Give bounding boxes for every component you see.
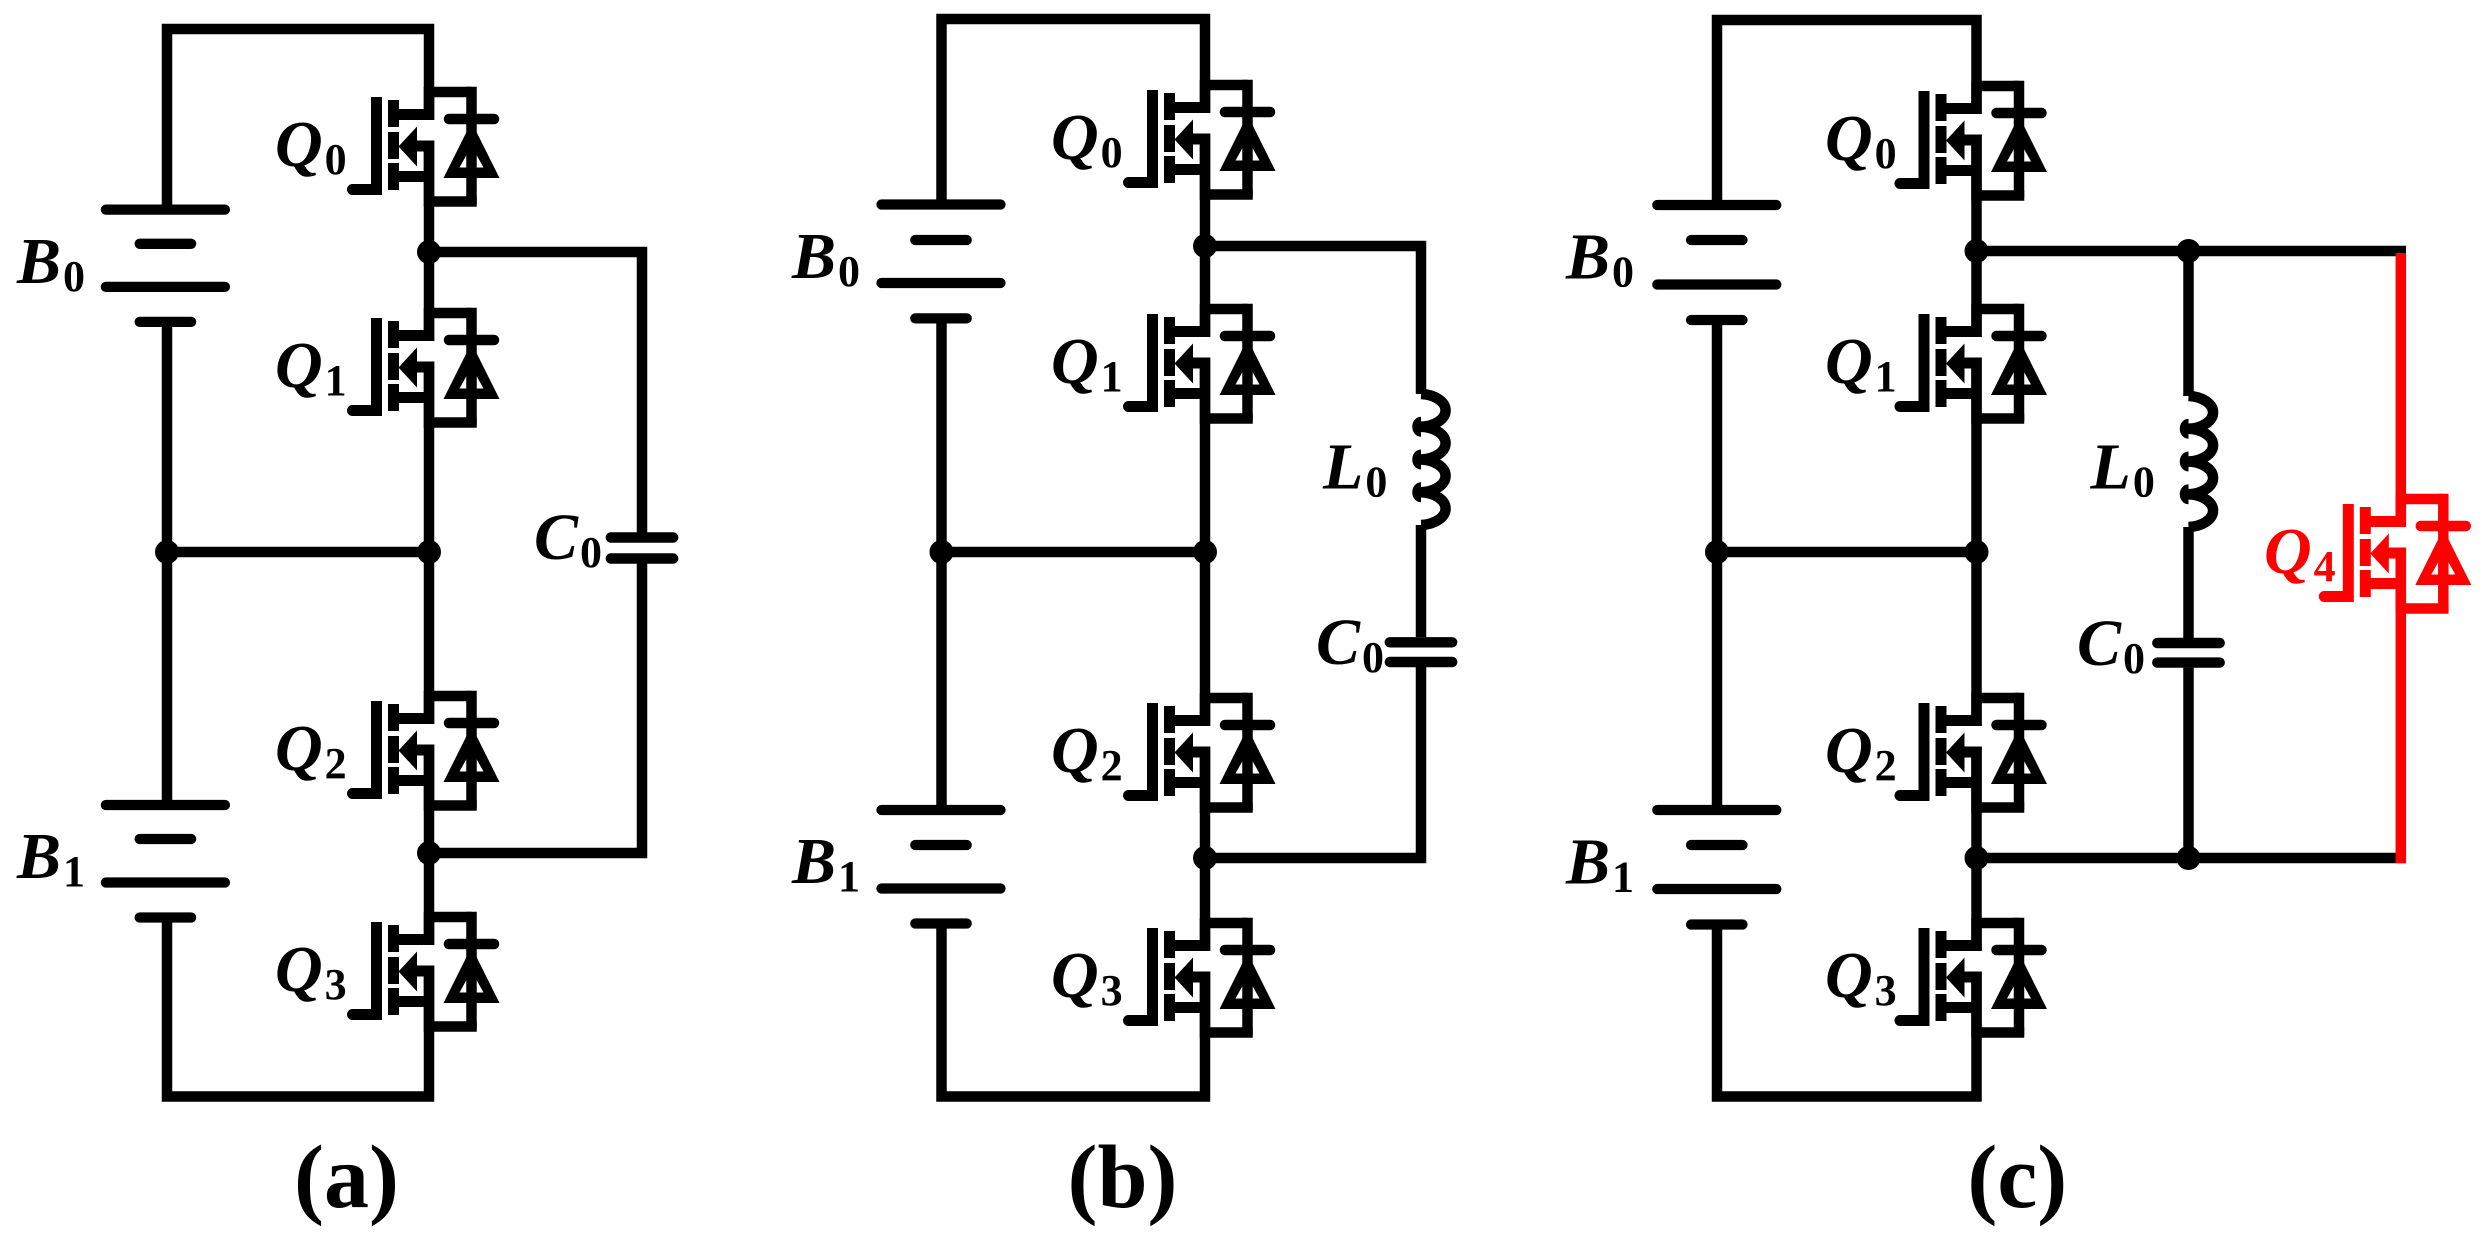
- wire: (c) bus Q1-mid-Q2: [1971, 358, 1982, 727]
- junction: (c) L0 tap top: [2177, 239, 2201, 263]
- wire: (c) B0- down to mid rail: [1712, 320, 1723, 552]
- junction: (c) L0 tap bottom: [2177, 846, 2201, 870]
- inductor L0 (b): [1421, 394, 1446, 525]
- wire: (b) C0 bottom to node B: [1205, 667, 1421, 858]
- wire: (b) mid rail down to B1+: [936, 552, 947, 814]
- junction: (b) mid rail right: [1193, 540, 1217, 564]
- transistor Q0 (b): [1129, 80, 1276, 200]
- wire: (c) tap down to L0: [2183, 251, 2194, 396]
- wire: (c) L0 to C0: [2183, 527, 2194, 638]
- battery B0 (a): [106, 204, 225, 214]
- transistor Q3 (b): [1129, 918, 1276, 1038]
- wire: (b) bus Q0-node-Q1: [1200, 134, 1211, 338]
- transistor Q1 (a): [353, 308, 500, 428]
- transistor Q2 (b): [1129, 693, 1276, 813]
- junction: (c) mid rail left: [1705, 540, 1729, 564]
- junction: (b) mid rail left: [930, 540, 954, 564]
- wire: (a) C0 bottom to node B: [429, 563, 642, 853]
- wire: (a) bottom run B1- to Q3 source: [167, 918, 429, 1097]
- svg-text:(a): (a): [294, 1128, 399, 1227]
- node A: (c) upper output node: [1965, 239, 1989, 263]
- wire: (b) bus Q2-node-Q3: [1200, 747, 1211, 952]
- wire: (a) top-left run B0+ to Q0 drain: [167, 29, 429, 206]
- transistor Q3 (c): [1900, 918, 2047, 1038]
- capacitor C0 (c): [2157, 638, 2219, 648]
- transistor Q1 (b): [1129, 304, 1276, 424]
- wire: (b) top-left run B0+ to Q0 drain: [942, 19, 1206, 201]
- wire: (b) L0 to C0: [1416, 525, 1427, 637]
- wire: (a) node A to C0 top: [429, 252, 642, 533]
- junction: (c) mid rail right: [1965, 540, 1989, 564]
- wire: (c) mid rail down to B1+: [1712, 552, 1723, 814]
- node A: (a) upper output node: [417, 240, 441, 264]
- wire: (a) bus Q0-node-Q1: [424, 141, 435, 342]
- wire: (c) red Q4 drain riser: [2396, 253, 2407, 527]
- wire: (b) node A to L0: [1205, 246, 1421, 394]
- transistor Q1 (c): [1900, 304, 2047, 424]
- wire: (c) bus Q2-node-Q3: [1971, 747, 1982, 952]
- node A: (b) upper output node: [1193, 234, 1217, 258]
- wire: (c) bottom run B1- to Q3 source: [1717, 925, 1977, 1097]
- battery B0 (c): [1657, 200, 1776, 210]
- junction: (a) mid rail left: [155, 540, 179, 564]
- wire: (a) mid rail down to B1+: [162, 552, 173, 809]
- battery B0 (b): [882, 199, 1001, 209]
- wire: (a) bus Q1-mid-Q2: [424, 362, 435, 725]
- junction: (a) mid rail right: [417, 540, 441, 564]
- wire: (a) bus Q2-node-Q3: [424, 745, 435, 946]
- node B: (a) lower output node: [417, 841, 441, 865]
- wire: (b) bus Q1-mid-Q2: [1200, 358, 1211, 727]
- wire: (c) C0 bottom to node B: [2183, 668, 2194, 858]
- wire: (a) B0- down to mid rail: [162, 322, 173, 552]
- capacitor C0 (a): [611, 532, 673, 542]
- battery B1 (c): [1657, 805, 1776, 815]
- battery B1 (a): [106, 800, 225, 810]
- wire: (c) node A rail to Q4 drain: [1977, 246, 2407, 257]
- node B: (b) lower output node: [1193, 846, 1217, 870]
- inductor L0 (c): [2189, 396, 2214, 527]
- transistor Q0 (c): [1900, 81, 2047, 201]
- wire: (c) node B rail to Q4 source: [1977, 853, 2407, 864]
- transistor Q2 (c): [1900, 693, 2047, 813]
- svg-text:(b): (b): [1068, 1128, 1178, 1227]
- svg-text:(c): (c): [1967, 1128, 2067, 1227]
- transistor Q3 (a): [353, 912, 500, 1032]
- node B: (c) lower output node: [1965, 846, 1989, 870]
- wire: (b) bottom run B1- to Q3 source: [942, 924, 1206, 1097]
- wire: (b) mid rail: [942, 547, 1206, 558]
- wire: (a) mid rail: [167, 547, 429, 558]
- wire: (c) mid rail: [1717, 547, 1977, 558]
- wire: (b) B0- down to mid rail: [936, 318, 947, 552]
- transistor Q4 (c) red: [2324, 494, 2471, 614]
- transistor Q0 (a): [353, 87, 500, 207]
- transistor Q2 (a): [353, 691, 500, 811]
- wire: (c) bus Q0-node-Q1: [1971, 135, 1982, 338]
- capacitor C0 (b): [1390, 637, 1452, 647]
- battery B1 (b): [882, 805, 1001, 815]
- wire: (c) red Q4 source drop: [2396, 548, 2407, 864]
- wire: (c) top-left run B0+ to Q0 drain: [1717, 20, 1977, 201]
